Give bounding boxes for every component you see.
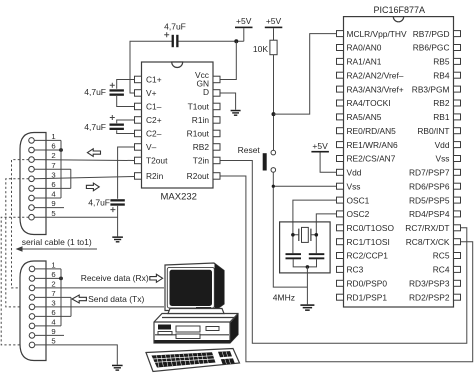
wire capacitor C2 to C2- pin xyxy=(117,130,135,133)
svg-text:6: 6 xyxy=(51,180,55,189)
wire MCLR xyxy=(274,34,337,115)
wire J1 pin2 to T2out xyxy=(34,159,134,162)
svg-text:RC7/RX/DT: RC7/RX/DT xyxy=(405,223,449,233)
svg-text:RB2: RB2 xyxy=(193,142,210,152)
ground (crystal) xyxy=(300,304,314,311)
capacitor C3 4,7uF xyxy=(88,198,125,213)
node crystal ground junction xyxy=(306,265,310,269)
svg-text:RA3/AN3/Vref+: RA3/AN3/Vref+ xyxy=(347,84,404,94)
svg-text:RE1/WR/AN6: RE1/WR/AN6 xyxy=(347,140,399,150)
J2 pin9 stub wire xyxy=(35,334,64,336)
svg-text:T2in: T2in xyxy=(193,156,210,166)
wire 10K to reset switch xyxy=(273,55,275,151)
serial cable arrow xyxy=(16,246,98,251)
crystal X1 xyxy=(293,227,316,242)
MAX232 right pins xyxy=(213,76,220,179)
node J2 tie junction xyxy=(59,277,63,281)
svg-text:9: 9 xyxy=(51,327,55,336)
svg-text:RD4/PSP4: RD4/PSP4 xyxy=(409,209,450,219)
arrow left (Tx) xyxy=(72,295,86,303)
ground (connector 2 pin 5) xyxy=(112,365,123,371)
J2 tie wire pins 1-6-4 xyxy=(60,269,62,326)
J2 pin6 wire xyxy=(35,277,61,279)
svg-text:RC1/T1OSI: RC1/T1OSI xyxy=(347,237,390,247)
svg-text:C2+: C2+ xyxy=(146,115,162,125)
svg-text:5: 5 xyxy=(51,337,55,346)
svg-text:T1out: T1out xyxy=(188,102,210,112)
+5V supply symbol (Vdd) xyxy=(311,141,336,172)
svg-text:9: 9 xyxy=(51,199,55,208)
ground (C3 / connector 1 pin 5) xyxy=(112,236,123,242)
svg-text:RC8/TX/CK: RC8/TX/CK xyxy=(406,237,450,247)
dashed cable wire pin2-pin2 xyxy=(12,160,30,288)
svg-text:RD5/PSP5: RD5/PSP5 xyxy=(409,195,450,205)
microcontroller PIC16F877A U1 body xyxy=(344,5,454,307)
PIC right pin labels xyxy=(405,29,450,303)
svg-text:4: 4 xyxy=(51,190,56,199)
svg-text:+5V: +5V xyxy=(266,16,282,26)
svg-text:RA5/AN5: RA5/AN5 xyxy=(347,112,382,122)
+5V supply symbol (10K) xyxy=(265,16,283,40)
J2 pin1 wire xyxy=(35,268,61,270)
node crystal left xyxy=(291,233,295,237)
svg-text:serial cable (1 to1): serial cable (1 to1) xyxy=(22,237,92,247)
svg-text:Send data (Tx): Send data (Tx) xyxy=(88,294,144,304)
J2 tie wire pins 7-8 xyxy=(70,297,72,316)
wire V+ pin to top capacitor row xyxy=(130,41,172,93)
wire OSC1 to crystal xyxy=(293,200,337,253)
computer: keyboard xyxy=(146,349,240,372)
svg-text:10K: 10K xyxy=(253,44,268,54)
computer: monitor xyxy=(165,263,224,311)
wire to crystal ground xyxy=(306,267,308,304)
svg-text:RD1/PSP1: RD1/PSP1 xyxy=(347,292,388,302)
PIC left pin labels xyxy=(347,29,407,303)
node junction +5V / Vcc xyxy=(234,39,238,43)
wire capacitor C3 to ground xyxy=(117,206,119,237)
node Vss junction xyxy=(272,185,275,188)
wire V- pin to capacitor C3 xyxy=(118,147,135,199)
J1 pin8 wire xyxy=(34,187,71,189)
arrow left (data to PC) xyxy=(87,149,100,157)
svg-text:D: D xyxy=(203,87,209,97)
PIC right pins xyxy=(454,31,461,301)
svg-text:Vss: Vss xyxy=(347,181,361,191)
J1 pin1 wire xyxy=(34,139,61,141)
J2 pin8 wire xyxy=(35,315,71,317)
wire top capacitor to +5V junction xyxy=(179,40,244,42)
node crystal right xyxy=(315,233,319,237)
svg-text:Receive data (Rx): Receive data (Rx) xyxy=(81,273,149,283)
connector J1 pin circles xyxy=(29,138,35,220)
op-amp MAX232 U2 body xyxy=(142,62,214,203)
capacitor C2 4,7uF xyxy=(84,115,124,132)
svg-text:RB5: RB5 xyxy=(433,57,450,67)
wire R2out to RC8/TX xyxy=(221,176,473,362)
svg-text:RC2/CCP1: RC2/CCP1 xyxy=(347,251,389,261)
svg-text:RA0/AN0: RA0/AN0 xyxy=(347,43,382,53)
computer: system case xyxy=(154,309,238,344)
svg-text:R1in: R1in xyxy=(192,115,210,125)
MAX232 left pins xyxy=(135,76,142,179)
svg-text:+5V: +5V xyxy=(236,16,252,26)
svg-text:RC0/T1OSO: RC0/T1OSO xyxy=(347,223,395,233)
+5V supply symbol (left) xyxy=(235,16,253,41)
svg-text:R2in: R2in xyxy=(146,171,164,181)
svg-text:Vdd: Vdd xyxy=(347,168,362,178)
svg-text:2: 2 xyxy=(51,151,55,160)
svg-text:RB2: RB2 xyxy=(433,98,450,108)
wire caps to ground rail xyxy=(293,259,316,267)
J1 tie wire pins 1-6-4 xyxy=(60,140,62,198)
J1 tie wire pins 7-8 xyxy=(70,169,72,188)
wire branch to Vss pin xyxy=(273,185,336,187)
svg-text:6: 6 xyxy=(51,308,55,317)
svg-text:PIC16F877A: PIC16F877A xyxy=(374,5,426,15)
connector J1 DB9 shell xyxy=(20,133,46,235)
wire J2 pin2 Rx to computer xyxy=(35,287,164,289)
J2 pin7 wire xyxy=(35,296,71,298)
svg-text:V+: V+ xyxy=(146,88,157,98)
svg-text:6: 6 xyxy=(51,142,55,151)
connector J1 pin number labels xyxy=(51,132,56,218)
computer: monitor base xyxy=(176,311,205,317)
connector J2 pin number labels xyxy=(51,261,56,346)
svg-text:RB1: RB1 xyxy=(433,112,450,122)
svg-text:RD3/PSP3: RD3/PSP3 xyxy=(409,279,450,289)
svg-text:RC4: RC4 xyxy=(433,265,450,275)
svg-text:RB0/INT: RB0/INT xyxy=(417,126,449,136)
resistor R1 10K xyxy=(253,40,277,55)
svg-text:3: 3 xyxy=(51,299,55,308)
J2 pin4 wire xyxy=(35,325,61,327)
node J1 tie junction xyxy=(59,148,63,152)
svg-text:V–: V– xyxy=(146,142,157,152)
svg-text:6: 6 xyxy=(51,270,55,279)
svg-text:1: 1 xyxy=(51,261,55,270)
connector J2 DB9 shell xyxy=(20,261,46,361)
wire C1+ pin to capacitor C1 xyxy=(117,80,135,89)
svg-text:1: 1 xyxy=(51,132,55,141)
J1 pin5 wire to ground xyxy=(34,216,117,218)
svg-text:RB7/PGD: RB7/PGD xyxy=(413,29,450,39)
wire J2 pin3 Tx to computer xyxy=(35,306,164,308)
capacitor C5 xyxy=(286,253,302,259)
arrow right (Rx) xyxy=(150,274,163,282)
svg-text:T2out: T2out xyxy=(146,156,168,166)
svg-text:OSC1: OSC1 xyxy=(347,195,370,205)
svg-text:RB3/PGM: RB3/PGM xyxy=(412,84,450,94)
wire T2in to RC7/RX xyxy=(221,161,467,344)
crystal module box xyxy=(280,222,331,273)
svg-text:MCLR/Vpp/THV: MCLR/Vpp/THV xyxy=(347,29,407,39)
svg-text:Vdd: Vdd xyxy=(435,140,450,150)
wire capacitor C1 to C1- pin xyxy=(117,96,135,107)
svg-text:MAX232: MAX232 xyxy=(161,192,197,203)
capacitor C4 4,7uF top xyxy=(164,22,186,48)
svg-text:7: 7 xyxy=(51,289,55,298)
svg-text:RE0/RD/AN5: RE0/RD/AN5 xyxy=(347,126,397,136)
svg-text:RA2/AN2/Vref–: RA2/AN2/Vref– xyxy=(347,70,404,80)
connector J2 pin circles xyxy=(29,266,35,348)
svg-text:RB4: RB4 xyxy=(433,70,450,80)
dashed cable wire pin5-pin5 xyxy=(1,217,29,345)
svg-text:RB6/PGC: RB6/PGC xyxy=(413,43,450,53)
svg-text:7: 7 xyxy=(51,161,55,170)
wire reset to Vss and crystal ground xyxy=(273,172,307,287)
ground (MAX232 GND) xyxy=(231,110,241,116)
svg-text:RC3: RC3 xyxy=(347,265,364,275)
svg-text:2: 2 xyxy=(51,280,55,289)
J1 pin6 wire xyxy=(34,149,61,151)
J2 pin5 wire to ground xyxy=(35,345,118,365)
svg-text:RD0/PSP0: RD0/PSP0 xyxy=(347,279,388,289)
svg-text:RC5: RC5 xyxy=(433,251,450,261)
svg-text:C1–: C1– xyxy=(146,102,162,112)
svg-text:4,7uF: 4,7uF xyxy=(84,87,106,97)
wire GND pin to ground xyxy=(221,93,236,110)
J1 pin4 wire xyxy=(34,197,61,199)
wire J1 pin3 to R2in xyxy=(34,177,134,179)
wire OSC2 to crystal xyxy=(316,214,336,253)
svg-text:4,7uF: 4,7uF xyxy=(164,22,186,32)
svg-text:RD7/PSP7: RD7/PSP7 xyxy=(409,168,450,178)
J1 pin7 wire xyxy=(34,168,71,170)
svg-text:RD2/PSP2: RD2/PSP2 xyxy=(409,292,450,302)
svg-text:RE2/CS/AN7: RE2/CS/AN7 xyxy=(347,154,396,164)
svg-text:Vss: Vss xyxy=(436,154,450,164)
svg-text:4,7uF: 4,7uF xyxy=(88,198,110,208)
svg-text:C1+: C1+ xyxy=(146,75,162,85)
arrow right (data to MAX232) xyxy=(86,183,99,191)
svg-text:4: 4 xyxy=(51,318,56,327)
svg-text:R1out: R1out xyxy=(187,129,210,139)
switch S1 Reset xyxy=(238,145,276,172)
svg-text:+5V: +5V xyxy=(312,141,328,151)
svg-text:4,7uF: 4,7uF xyxy=(84,122,106,132)
svg-text:C2–: C2– xyxy=(146,129,162,139)
node MCLR junction xyxy=(272,112,276,116)
svg-text:5: 5 xyxy=(51,209,55,218)
svg-text:R2out: R2out xyxy=(187,171,210,181)
capacitor C6 xyxy=(309,253,325,259)
capacitor C1 4,7uF xyxy=(84,83,124,97)
J1 pin9 stub wire xyxy=(34,207,64,209)
wire junction to Vcc pin xyxy=(221,41,237,79)
svg-text:RD6/PSP6: RD6/PSP6 xyxy=(409,181,450,191)
MAX232 pin labels xyxy=(146,70,210,181)
svg-text:Reset: Reset xyxy=(238,145,261,155)
svg-text:RA4/TOCKI: RA4/TOCKI xyxy=(347,98,391,108)
svg-text:RA1/AN1: RA1/AN1 xyxy=(347,57,382,67)
svg-text:4MHz: 4MHz xyxy=(273,292,295,302)
wire C2+ pin to capacitor C2 xyxy=(117,120,135,123)
PIC left pins xyxy=(337,31,344,301)
dashed cable wire pin3-pin3 xyxy=(6,179,29,307)
svg-text:OSC2: OSC2 xyxy=(347,209,370,219)
